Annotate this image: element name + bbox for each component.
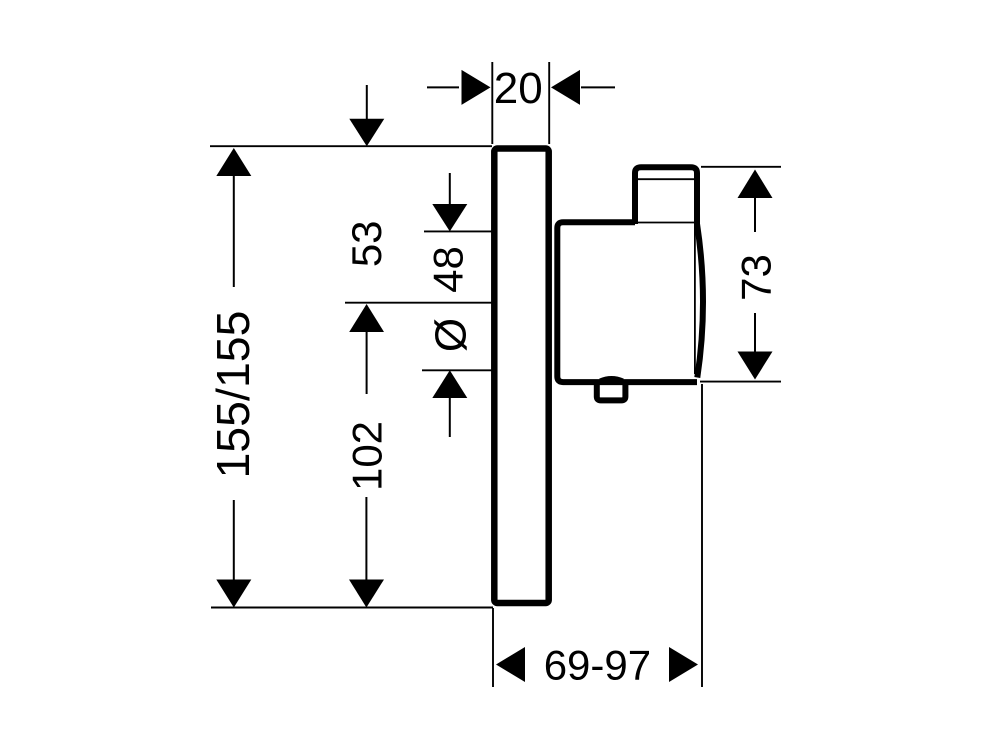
svg-text:155/155: 155/155 (207, 310, 259, 478)
arrow 20 left (462, 70, 491, 105)
valve body right inner edge (694, 227, 696, 374)
extension line 69-97 right (701, 384, 703, 687)
arrow 102 bottom (349, 580, 384, 608)
arrow 53 top (349, 119, 384, 147)
svg-text:69-97: 69-97 (544, 642, 651, 689)
dim 155 top tail (233, 176, 235, 287)
arrow 69-97 left (496, 647, 525, 682)
retaining tab top arc (600, 378, 623, 381)
arrow 155 top (216, 148, 251, 176)
arrow 20 right (551, 70, 580, 105)
arrow 48 top (432, 204, 467, 231)
extension line 69-97 left (492, 608, 494, 687)
dim 48 bottom tail (449, 397, 451, 437)
extension line 73 bottom (700, 381, 781, 383)
dim 48 top tail (449, 173, 451, 205)
arrow 69-97 right (669, 647, 698, 682)
valve body outline (557, 222, 697, 382)
svg-text:102: 102 (344, 421, 391, 491)
arrow 155 bottom (216, 580, 251, 608)
extension line centerline y302 (345, 302, 492, 304)
retaining tab (597, 381, 626, 400)
dim 73 bottom tail (754, 313, 756, 352)
extension line plate bottom (211, 607, 493, 609)
wall plate (escutcheon, side view) (494, 149, 548, 604)
dim 73 top tail (754, 197, 756, 232)
dim 155 bottom tail (233, 500, 235, 581)
extension line diam bottom y370 (422, 369, 492, 371)
dim 20 left tail (427, 86, 459, 88)
cartridge base line (638, 222, 695, 224)
arrow 73 bottom (738, 352, 773, 380)
dim 20 right tail (581, 86, 615, 88)
extension line plate top (210, 145, 492, 147)
extension line diam top y231 (424, 230, 492, 232)
svg-text:Ø: Ø (427, 318, 476, 352)
dim 102 bottom tail (365, 497, 367, 581)
extension line 20 right (548, 62, 550, 144)
extension line 73 top (701, 166, 781, 168)
arrow 73 top (738, 170, 773, 199)
dim 53 top tail (366, 85, 368, 120)
extension line 20 left (491, 62, 493, 144)
svg-text:48: 48 (424, 246, 471, 293)
cartridge stem (635, 167, 697, 227)
svg-text:20: 20 (494, 64, 543, 113)
svg-text:53: 53 (343, 220, 390, 267)
arrow 102 top (349, 304, 384, 332)
svg-text:73: 73 (733, 254, 780, 301)
dim 102 top tail (366, 331, 368, 394)
cartridge cap line (638, 178, 695, 180)
arrow 48 bottom (432, 370, 467, 398)
valve body right arc (697, 225, 703, 378)
